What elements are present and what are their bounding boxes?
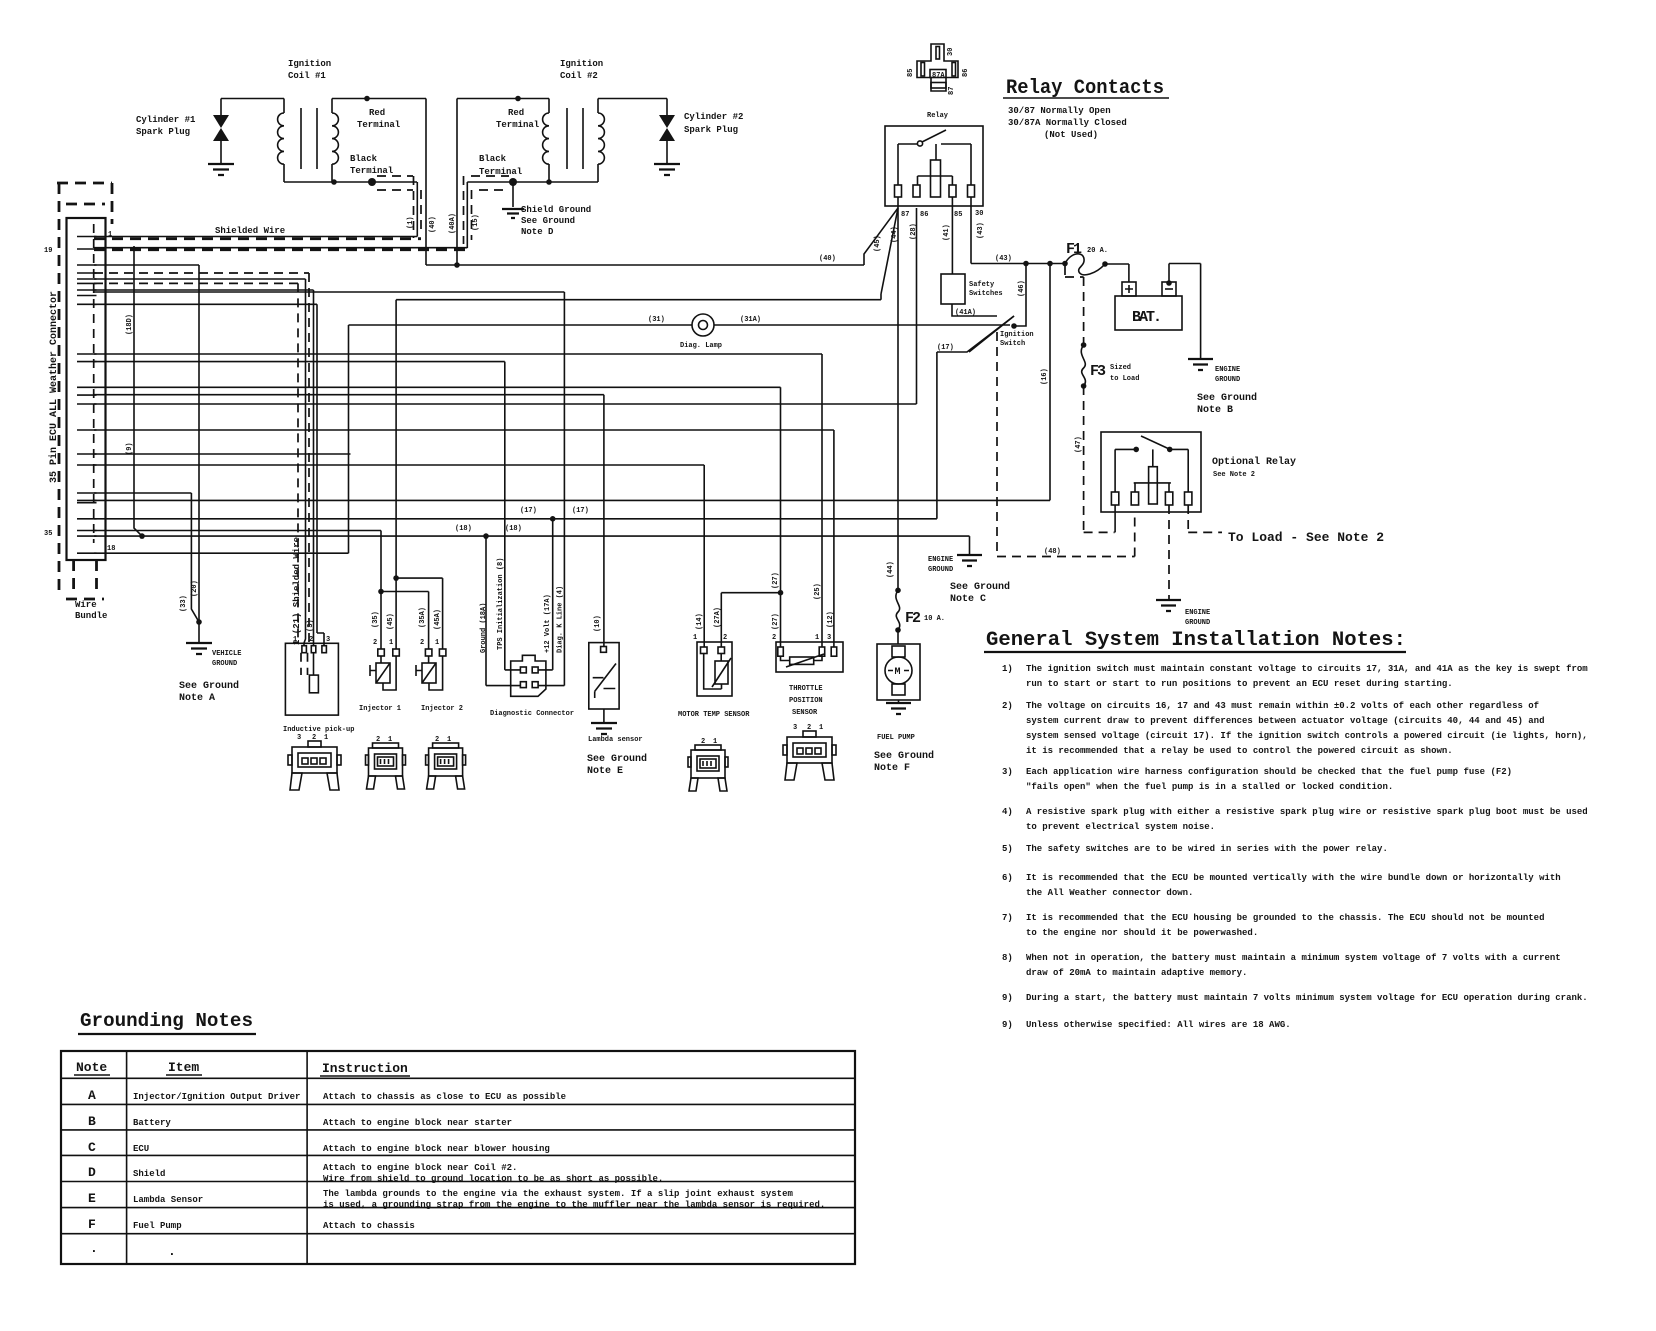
svg-text:Relay Contacts: Relay Contacts [1006, 77, 1164, 100]
vehicle ground wire [198, 622, 200, 643]
svg-text:(43): (43) [995, 255, 1012, 263]
spark plug 2 [666, 99, 668, 116]
wire 47 dashed F3 to optional relay [1084, 386, 1115, 532]
svg-text:VEHICLE: VEHICLE [212, 650, 241, 658]
wire (48) dashed ignition to optional relay [997, 332, 1135, 557]
svg-text:1 (21) Shielded Wire: 1 (21) Shielded Wire [292, 537, 302, 645]
injector1 body [380, 656, 382, 663]
diag lamp [692, 314, 714, 336]
svg-text:(25): (25) [814, 583, 822, 600]
svg-text:ECU: ECU [133, 1144, 149, 1154]
svg-text:Shielded Wire: Shielded Wire [215, 226, 285, 236]
svg-text:2: 2 [373, 639, 377, 647]
svg-text:Item: Item [168, 1060, 199, 1075]
wire (27A) branch [778, 590, 784, 596]
svg-text:Switches: Switches [969, 290, 1003, 298]
injector2 body [428, 656, 430, 663]
svg-text:(45): (45) [387, 613, 395, 630]
svg-text:2: 2 [420, 639, 424, 647]
transformer T2 windings [543, 99, 549, 183]
svg-text:(41A): (41A) [955, 309, 976, 317]
optional relay coil bracket [1134, 483, 1171, 492]
svg-text:8): 8) [1002, 953, 1013, 963]
injector1 plug connector [366, 743, 406, 789]
svg-text:Attach to chassis as close to: Attach to chassis as close to ECU as pos… [323, 1092, 566, 1102]
svg-text:2: 2 [309, 636, 313, 644]
wire 40 power corner to relay [426, 208, 898, 265]
svg-text:Red: Red [369, 108, 385, 118]
svg-text:Shield: Shield [133, 1169, 165, 1179]
TPS pins [778, 647, 784, 656]
injector1 wires down [381, 578, 396, 649]
svg-text:it is recommended that a relay: it is recommended that a relay be used t… [1026, 746, 1453, 756]
node T2 windings bottom [546, 179, 552, 185]
svg-text:C: C [88, 1140, 96, 1155]
svg-text:Unless otherwise specified: A: Unless otherwise specified: All wires ar… [1026, 1020, 1291, 1030]
svg-text:(17): (17) [937, 344, 954, 352]
motor temp internal wires [704, 654, 722, 690]
diagnostic connector body [511, 655, 546, 696]
svg-text:Fuel Pump: Fuel Pump [133, 1221, 182, 1231]
svg-text:E: E [88, 1191, 96, 1206]
wire (27) to TPS pin2 [94, 387, 781, 647]
svg-text:35: 35 [44, 530, 52, 538]
svg-text:Attach to engine block near bl: Attach to engine block near blower housi… [323, 1144, 550, 1154]
motor temp sensor box [697, 642, 732, 696]
svg-text:is used, a grounding strap fro: is used, a grounding strap from the engi… [323, 1200, 825, 1210]
ignition switch blade [969, 316, 1014, 352]
lambda sensor box [589, 643, 619, 709]
wire F2 to fuel pump [897, 630, 899, 644]
node T1 windings bottom [331, 179, 337, 185]
svg-text:(18): (18) [455, 525, 472, 533]
svg-text:GROUND: GROUND [1215, 376, 1240, 384]
relay pin 87 [895, 185, 902, 197]
svg-text:7): 7) [1002, 913, 1013, 923]
svg-text:(35): (35) [372, 611, 380, 628]
mini symbol right slot [952, 63, 956, 77]
injector2 connector pins [425, 649, 432, 656]
svg-text:See Ground: See Ground [874, 750, 934, 762]
pickup internal shield pair [301, 653, 308, 675]
wire (12) to TPS pin3 [94, 430, 834, 647]
svg-text:Note A: Note A [179, 693, 215, 704]
svg-text:1: 1 [447, 736, 451, 744]
svg-text:2: 2 [772, 634, 776, 642]
motor temp pins [701, 647, 708, 654]
injector1 connector pins [378, 649, 385, 656]
svg-text:1): 1) [1002, 664, 1013, 674]
svg-text:See Ground: See Ground [950, 581, 1010, 593]
svg-text:TPS Initialization (8): TPS Initialization (8) [497, 558, 505, 650]
svg-text:6): 6) [1002, 873, 1013, 883]
battery minus terminal [1162, 282, 1176, 296]
mini symbol 87A box [930, 70, 946, 78]
svg-text:Sized: Sized [1110, 364, 1131, 372]
svg-text:F1: F1 [1066, 241, 1082, 258]
svg-text:3): 3) [1002, 767, 1013, 777]
svg-text:Inductive pick-up: Inductive pick-up [283, 726, 354, 734]
lambda ground symbol [591, 723, 617, 734]
wire (21) core to pickup pin 1 [94, 279, 306, 646]
svg-text:Shield Ground: Shield Ground [521, 205, 591, 215]
ignition switch contact node [1011, 323, 1017, 329]
engine ground C symbol [957, 555, 982, 566]
svg-text:to Load: to Load [1110, 375, 1139, 383]
motor temp resistor [715, 661, 728, 684]
shield dashes around wire 15 [464, 176, 510, 244]
svg-text:1: 1 [693, 634, 697, 642]
svg-text:Safety: Safety [969, 281, 995, 289]
svg-text:Battery: Battery [133, 1118, 171, 1128]
svg-text:87A: 87A [932, 72, 945, 80]
wire (21) dashed shield inner [94, 283, 298, 643]
wire (20) pin to vehicle ground [94, 265, 199, 622]
wire (35) to injector 1 [94, 531, 381, 592]
svg-text:Red: Red [508, 108, 524, 118]
svg-text:(48): (48) [1044, 548, 1061, 556]
wire (21) dashed shield outer [94, 273, 309, 643]
fuse F1 [1062, 261, 1068, 267]
svg-text:10 A.: 10 A. [924, 615, 945, 623]
svg-text:30: 30 [947, 48, 955, 56]
table row lines [61, 1078, 855, 1233]
svg-text:1: 1 [389, 639, 393, 647]
relay pin 85 [949, 185, 956, 197]
svg-text:Diag. K Line (4): Diag. K Line (4) [557, 586, 565, 653]
svg-text:F: F [88, 1217, 96, 1232]
svg-text:Grounding Notes: Grounding Notes [80, 1010, 253, 1032]
svg-text:the All Weather connector down: the All Weather connector down. [1026, 888, 1193, 898]
optional relay switch [1141, 436, 1170, 449]
svg-text:During a start, the battery mu: During a start, the battery must maintai… [1026, 993, 1588, 1003]
fuel pump ground wire [898, 700, 900, 703]
fuel pump motor circle [885, 657, 912, 684]
fuse F3 dashed feed [1065, 266, 1084, 345]
svg-text:Attach to engine block near st: Attach to engine block near starter [323, 1118, 512, 1128]
svg-text:A resistive spark plug with ei: A resistive spark plug with either a res… [1026, 807, 1588, 817]
svg-text:3: 3 [827, 634, 831, 642]
svg-text:9): 9) [1002, 993, 1013, 1003]
wire T1 bottom bus [284, 181, 417, 183]
pickup connector [288, 741, 341, 790]
wire pin1 shield bus 1 [94, 236, 417, 238]
motor temp connector [688, 745, 728, 791]
svg-text:19: 19 [44, 247, 52, 255]
wire (18D)/(9) inner vertical [134, 246, 142, 536]
svg-text:1: 1 [108, 231, 112, 239]
svg-text:Lambda sensor: Lambda sensor [588, 736, 643, 744]
svg-text:(40): (40) [429, 216, 437, 233]
node 40A-power [454, 262, 460, 268]
svg-text:Black: Black [479, 154, 507, 164]
wire (46) from 43 node to ignition switch [1014, 264, 1026, 327]
svg-text:Relay: Relay [927, 112, 949, 120]
svg-text:1: 1 [293, 636, 297, 644]
svg-text:Note C: Note C [950, 594, 986, 605]
svg-text:The ignition switch must maint: The ignition switch must maintain consta… [1026, 664, 1588, 674]
svg-text:2: 2 [376, 736, 380, 744]
svg-text:F2: F2 [905, 610, 921, 627]
svg-text:(3): (3) [307, 619, 315, 632]
svg-text:GROUND: GROUND [928, 566, 953, 574]
TPS connector [783, 731, 836, 780]
injector1 tail [370, 665, 376, 676]
svg-text:POSITION: POSITION [789, 697, 823, 705]
wire (35A) split [381, 592, 429, 650]
ECU connector body [67, 218, 106, 560]
wire (44) from pin 87 down [897, 197, 899, 590]
svg-text:(44): (44) [887, 561, 895, 578]
injector2 plug connector [426, 743, 466, 789]
svg-text:Cylinder #2: Cylinder #2 [684, 112, 743, 122]
svg-text:Coil #1: Coil #1 [288, 71, 326, 81]
diag K line entry [538, 685, 564, 687]
svg-text:(Not Used): (Not Used) [1044, 130, 1098, 140]
shield ground wire from black terminal 2 [512, 182, 514, 207]
TPS resistor [790, 657, 814, 664]
svg-text:Instruction: Instruction [322, 1061, 408, 1076]
svg-text:ENGINE: ENGINE [928, 556, 953, 564]
svg-text:(33): (33) [180, 595, 188, 612]
wire T2 red top [457, 98, 549, 100]
svg-text:See Ground: See Ground [521, 216, 575, 226]
svg-text:F3: F3 [1090, 363, 1106, 380]
svg-text:(40): (40) [819, 255, 836, 263]
pickup pin 1 [302, 646, 307, 653]
svg-text:Injector 2: Injector 2 [421, 705, 463, 713]
svg-text:ENGINE: ENGINE [1215, 366, 1240, 374]
svg-text:to prevent electrical system n: to prevent electrical system noise. [1026, 822, 1215, 832]
svg-text:18: 18 [107, 545, 115, 553]
wire (3) to pickup pin 2 [94, 290, 314, 646]
svg-text:3: 3 [793, 724, 797, 732]
svg-text:.: . [90, 1241, 98, 1256]
svg-text:87: 87 [901, 211, 909, 219]
transformer T2 core [567, 108, 583, 169]
relay switch [898, 143, 917, 145]
svg-text:(16): (16) [1041, 368, 1049, 385]
relay pin 30 [968, 185, 975, 197]
injector2 tail [416, 665, 422, 676]
svg-text:SENSOR: SENSOR [792, 709, 818, 717]
relay contacts mini symbol outline [917, 44, 958, 91]
svg-text:(31A): (31A) [740, 316, 761, 324]
optional relay pin1 wire [1114, 505, 1116, 532]
svg-text:Attach to chassis: Attach to chassis [323, 1221, 415, 1231]
node black terminal 1 [368, 178, 376, 186]
svg-text:system sensed voltage (circuit: system sensed voltage (circuit 17). If t… [1026, 731, 1588, 741]
svg-text:When not in operation, the bat: When not in operation, the battery must … [1026, 953, 1561, 963]
wire (31A) lamp to ignition switch [714, 324, 1010, 326]
node black terminal 2 [509, 178, 517, 186]
svg-text:85: 85 [954, 211, 962, 219]
svg-text:Ground (18A): Ground (18A) [480, 603, 488, 653]
ECU connector dashed shell top [57, 182, 112, 185]
pickup coil [309, 675, 318, 693]
svg-text:See Ground: See Ground [587, 753, 647, 765]
svg-text:30: 30 [975, 210, 983, 218]
svg-text:run to start or start to run p: run to start or start to run positions t… [1026, 679, 1453, 689]
spark plug 1 [220, 99, 222, 116]
svg-text:(43): (43) [977, 222, 985, 239]
svg-text:Switch: Switch [1000, 340, 1025, 348]
engine ground B symbol [1188, 359, 1213, 370]
wire (43) from pin 30 [971, 197, 1065, 264]
svg-text:85: 85 [907, 69, 915, 77]
node 17A tap [550, 516, 556, 522]
svg-text:1: 1 [435, 639, 439, 647]
transformer T1 windings [278, 99, 284, 183]
wire minus to engine ground [1169, 264, 1201, 360]
svg-text:.: . [168, 1244, 176, 1259]
vehicle ground symbol [186, 643, 212, 654]
svg-text:THROTTLE: THROTTLE [789, 685, 823, 693]
svg-text:1: 1 [815, 634, 819, 642]
svg-text:86: 86 [962, 69, 970, 77]
svg-text:B: B [88, 1114, 96, 1129]
relay coil [931, 160, 941, 197]
wire (45) vertical to injectors [395, 300, 397, 578]
svg-text:2: 2 [701, 738, 705, 746]
svg-text:Spark Plug: Spark Plug [136, 127, 190, 137]
svg-text:87: 87 [948, 87, 956, 95]
svg-text:It is recommended that the ECU: It is recommended that the ECU housing b… [1026, 913, 1544, 923]
wire (8) TPS initialization [94, 362, 520, 670]
relay box [885, 126, 983, 206]
svg-text:system current draw to prevent: system current draw to prevent differenc… [1026, 716, 1544, 726]
svg-text:Black: Black [350, 154, 378, 164]
wire (31) to diag lamp [94, 325, 692, 553]
svg-text:86: 86 [920, 211, 928, 219]
svg-text:Attach to engine block near Co: Attach to engine block near Coil #2. [323, 1163, 517, 1173]
svg-text:ENGINE: ENGINE [1185, 609, 1210, 617]
pickup pin 2 [311, 646, 316, 653]
optional relay box [1101, 432, 1201, 512]
svg-text:(15): (15) [472, 214, 480, 231]
wire (17A) to diag connector [538, 519, 553, 670]
svg-text:Cylinder #1: Cylinder #1 [136, 115, 196, 125]
svg-text:See Ground: See Ground [1197, 392, 1257, 404]
wire (18) ecu ground bus [94, 536, 970, 555]
wire (40) red terminal 1 down to power line [425, 99, 427, 266]
table column lines [127, 1051, 308, 1264]
svg-text:Diag. Lamp: Diag. Lamp [680, 342, 722, 350]
svg-text:(28): (28) [910, 223, 918, 240]
svg-text:It is recommended that the ECU: It is recommended that the ECU be mounte… [1026, 873, 1561, 883]
svg-text:9): 9) [1002, 1020, 1013, 1030]
shield ground symbol [502, 209, 524, 218]
svg-text:(14): (14) [696, 613, 704, 630]
svg-text:1: 1 [819, 724, 823, 732]
wire T1 secondary top to vertical 40 [332, 98, 426, 100]
svg-text:(17): (17) [520, 507, 537, 515]
mini symbol top slot [936, 47, 940, 60]
fuel pump terminals [892, 646, 905, 657]
node red terminal 1 [364, 96, 370, 102]
svg-text:Wire from shield to ground loc: Wire from shield to ground location to b… [323, 1174, 663, 1184]
svg-text:+12 Volt (17A): +12 Volt (17A) [544, 594, 552, 653]
svg-text:Ignition: Ignition [560, 59, 603, 69]
svg-text:The lambda grounds to the engi: The lambda grounds to the engine via the… [323, 1189, 793, 1199]
svg-text:(46): (46) [1018, 280, 1026, 297]
svg-text:20 A.: 20 A. [1087, 247, 1108, 255]
wire (45A) split [396, 578, 443, 649]
wire to pickup pin 3 [94, 304, 324, 646]
relay coil bracket [918, 176, 953, 185]
diagnostic connector pins [520, 667, 526, 673]
wire (10) lambda [94, 395, 604, 647]
svg-text:35 Pin ECU ALL Weather Connect: 35 Pin ECU ALL Weather Connector [48, 291, 60, 483]
fuse F2 [895, 588, 901, 594]
svg-text:(31): (31) [648, 316, 665, 324]
wire (15) black terminal 2 down to shield bus 2 [466, 182, 468, 248]
svg-text:(41): (41) [943, 224, 951, 241]
mini symbol bottom slot [931, 83, 946, 89]
svg-text:Bundle: Bundle [75, 611, 107, 621]
svg-text:GROUND: GROUND [1185, 619, 1210, 627]
svg-text:(45): (45) [874, 235, 882, 252]
svg-text:BAT.: BAT. [1132, 309, 1160, 326]
wire (17) to ignition switch [94, 316, 1014, 519]
transformer T1 core [301, 108, 317, 169]
svg-text:MOTOR TEMP SENSOR: MOTOR TEMP SENSOR [678, 711, 750, 719]
wire (33) to vehicle ground [94, 493, 199, 622]
svg-text:FUEL PUMP: FUEL PUMP [877, 734, 915, 742]
svg-text:Note F: Note F [874, 763, 910, 774]
pin ticks [77, 237, 97, 554]
lambda ground wire [603, 709, 605, 723]
svg-text:The safety switches are to be: The safety switches are to be wired in s… [1026, 844, 1388, 854]
svg-text:The voltage on circuits 16, 17: The voltage on circuits 16, 17 and 43 mu… [1026, 701, 1539, 711]
svg-text:Terminal: Terminal [357, 120, 401, 130]
svg-text:5): 5) [1002, 844, 1013, 854]
svg-text:"fails open" when the fuel pum: "fails open" when the fuel pump is in a … [1026, 782, 1393, 792]
svg-text:2: 2 [807, 724, 811, 732]
svg-text:Note E: Note E [587, 766, 623, 777]
svg-text:M: M [895, 667, 901, 678]
svg-text:4): 4) [1002, 807, 1013, 817]
svg-text:See Ground: See Ground [179, 680, 239, 692]
vehicle ground node [196, 619, 202, 625]
svg-text:To Load - See Note 2: To Load - See Note 2 [1228, 530, 1384, 545]
mini symbol left slot [921, 63, 925, 77]
injector2 U wire [429, 656, 443, 690]
ECU connector dashed pin line [93, 224, 95, 543]
svg-text:(9): (9) [126, 442, 134, 455]
svg-text:Coil #2: Coil #2 [560, 71, 598, 81]
svg-text:Terminal: Terminal [479, 167, 523, 177]
svg-text:(1): (1) [407, 216, 415, 229]
svg-text:Terminal: Terminal [496, 120, 540, 130]
wire (45) diagonal from pin 87 [396, 208, 898, 300]
svg-text:Lambda Sensor: Lambda Sensor [133, 1195, 203, 1205]
svg-text:1: 1 [324, 734, 328, 742]
svg-text:Injector 1: Injector 1 [359, 705, 401, 713]
svg-text:D: D [88, 1165, 96, 1180]
injector1 U wire [383, 656, 396, 690]
wire (4) diag K line [94, 292, 564, 686]
node 18A tap [483, 533, 489, 539]
svg-text:2: 2 [435, 736, 439, 744]
svg-text:(45A): (45A) [434, 609, 442, 630]
svg-text:30/87A Normally Closed: 30/87A Normally Closed [1008, 118, 1127, 128]
wire (28) to relay pin 86 [94, 208, 917, 404]
wire (18A) to diag connector [486, 536, 520, 686]
optional relay pin3 dashed to ground [1168, 505, 1170, 600]
node red terminal 2 [515, 96, 521, 102]
wire pin19 shield bus 2 [94, 247, 467, 249]
